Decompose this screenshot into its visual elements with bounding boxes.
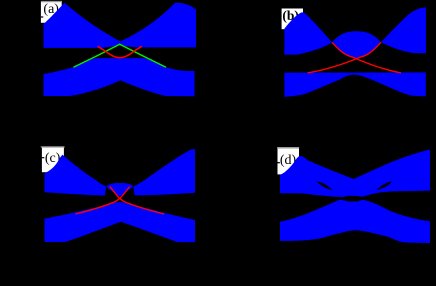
panel c: upper band with center bump bbox=[45, 149, 196, 196]
panel d: right eye slit bbox=[377, 181, 393, 189]
panel b: red edge state (right pinch to lower left) bbox=[308, 42, 382, 73]
panel a: upper band left wedge bbox=[44, 3, 127, 48]
panel a: label box bbox=[41, 2, 62, 23]
panel c: lower band bbox=[45, 202, 196, 242]
panel b: upper band (lobes + dome) bbox=[284, 7, 426, 58]
panel d: lower band bbox=[280, 200, 430, 244]
panel a: upper band right wedge bbox=[114, 3, 197, 48]
panel b: label box bbox=[282, 8, 303, 29]
panel d: left eye slit bbox=[317, 181, 333, 189]
panel a: red edge-state V bbox=[98, 46, 143, 58]
panel d: label box bbox=[277, 148, 299, 175]
panel c: label box bbox=[41, 147, 65, 172]
panel a: lower band bbox=[44, 58, 195, 96]
panel c: red edge state (falling) bbox=[110, 187, 164, 214]
panel d: upper band bbox=[280, 150, 430, 197]
panel b: lower band bbox=[284, 72, 425, 96]
panel a: green edge-state tent bbox=[74, 44, 167, 67]
panel b: red edge state (left pinch to lower right) bbox=[332, 42, 401, 73]
panel c: red edge state (rising) bbox=[76, 187, 130, 214]
